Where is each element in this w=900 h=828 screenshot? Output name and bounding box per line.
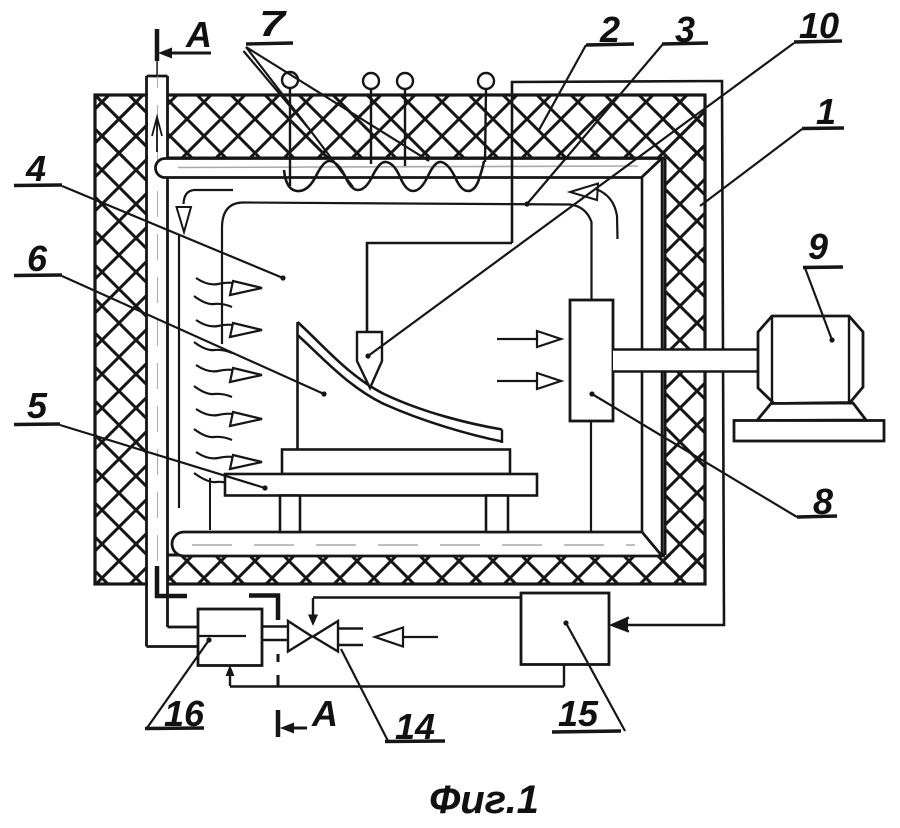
leader 5 [60,425,265,488]
valve 14 [262,598,363,652]
svg-text:1: 1 [816,91,836,132]
leader 3 [527,44,663,204]
svg-text:9: 9 [808,226,828,267]
leader 1 [700,129,802,206]
svg-text:Фиг.1: Фиг.1 [429,778,539,822]
liner fragment [209,478,211,530]
leader 6 [62,276,324,394]
section mark A (top) [157,14,212,77]
svg-text:6: 6 [27,238,48,279]
riser pipe (left) [147,76,199,647]
heater terminal leads [290,88,486,186]
svg-text:7: 7 [259,3,287,44]
section mark A (bottom) [157,566,338,737]
inner liner left wall [178,235,180,508]
wall inner boundaries [146,158,665,555]
leader 16 [147,640,209,728]
leader 10 [368,43,794,356]
support table 5 [225,450,537,533]
controller box 16 [198,609,262,666]
down arrow (flow into chamber) [177,207,192,232]
leader 9 [805,268,832,340]
right liner band [642,159,662,555]
leader 15 [566,623,625,731]
svg-text:5: 5 [27,385,48,426]
feedback line into box 16 [230,665,564,687]
control box 15 [521,593,609,665]
arrow into box 15 [612,618,629,632]
sensor probe 10 (pendant arrow) [357,332,382,388]
flow arrow (top right, pointing left) [570,184,598,201]
fan 8 [570,300,613,421]
leader 2 [539,45,586,130]
svg-text:4: 4 [25,148,46,189]
workpiece 6 [298,322,503,452]
leader 8 [592,394,797,517]
section line A-A (faint) [157,62,159,566]
control line valve to box 15 [313,596,521,598]
liner ceiling line to fan [222,203,592,345]
wall outer boundary [95,95,705,584]
flow arrow up inside pipe [152,117,162,152]
outer duct frame 10 [512,81,724,625]
its curved tail [596,189,618,239]
ceiling plate (top bar) [156,159,662,178]
heater terminals [282,72,494,89]
heater 7 : coil [284,161,484,191]
leader 4 [62,186,283,278]
svg-text:15: 15 [558,693,599,734]
flow arrows toward fan [497,331,561,389]
wavy flow arrows along left wall [194,278,262,486]
leader 7 [244,47,430,187]
svg-text:A: A [185,14,212,55]
svg-text:A: A [311,693,338,734]
shaft [613,350,758,372]
inlet flow arrow [403,636,438,638]
fan lower support line [590,421,592,532]
sensor support line [367,243,512,332]
leader 14 [341,649,388,741]
floor plate (bottom bar) [172,532,662,556]
insulation wall 2 : hatched bands [95,95,705,584]
flow guide at pipe outlet [184,190,234,204]
motor 9 [734,316,884,441]
